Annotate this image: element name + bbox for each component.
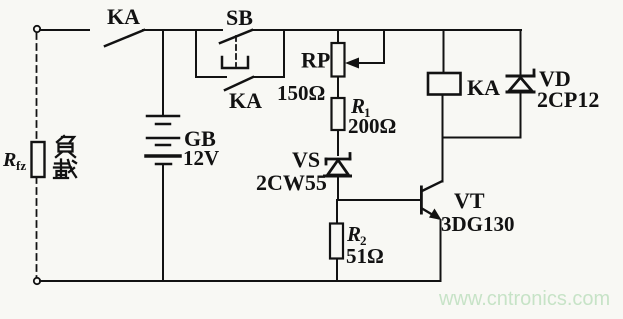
wire top rail middle segment: [143, 29, 222, 31]
wire top rail right of SB: [252, 29, 338, 31]
wire SB box left vertical: [195, 30, 197, 77]
svg-text:SB: SB: [226, 5, 253, 30]
wire battery branch bottom: [162, 165, 164, 281]
wire battery branch top: [162, 30, 164, 115]
wire top rail to VD corner: [384, 29, 521, 31]
transistor VT emitter lead: [422, 209, 438, 219]
potentiometer RP wiper arrowhead: [345, 58, 359, 69]
wire RP top: [337, 30, 339, 43]
svg-text:R: R: [2, 149, 16, 171]
resistor R1 body: [332, 98, 345, 130]
battery GB plates: [146, 116, 180, 164]
wire R2 to bottom rail: [336, 259, 338, 282]
wire node to R2: [336, 200, 338, 224]
wire SB box right vertical: [283, 30, 285, 77]
node B (bottom-left terminal): [34, 278, 40, 284]
wire KA2 branch left: [196, 76, 226, 78]
label 负 (load char 1): [56, 136, 75, 157]
wire VD to collector joint: [443, 137, 521, 139]
wire base (node to transistor): [337, 199, 420, 201]
wire KA2 branch right: [253, 76, 284, 78]
svg-text:150Ω: 150Ω: [277, 81, 325, 105]
wire bottom rail: [40, 280, 441, 282]
relay contact KA2 blade: [225, 77, 253, 90]
diode VD: [507, 70, 534, 92]
wire emitter vertical: [440, 220, 442, 281]
relay coil KA body: [428, 73, 461, 95]
svg-text:R: R: [346, 222, 361, 246]
pushbutton SB actuator bracket: [222, 57, 248, 68]
svg-text:VS: VS: [292, 147, 320, 172]
svg-text:2CP12: 2CP12: [537, 87, 599, 112]
resistor Rfz body: [32, 142, 45, 177]
pushbutton SB dashed link: [235, 36, 237, 66]
wire VD top: [520, 30, 522, 75]
wire R1 to VS: [337, 130, 339, 155]
wire coil KA top: [443, 30, 445, 73]
wire top rail RP to wiper: [338, 29, 384, 31]
switch KA1 blade: [105, 30, 144, 46]
wire top rail left segment: [40, 29, 89, 31]
wire load dashed top: [36, 33, 38, 142]
transistor VT collector lead: [422, 182, 442, 192]
svg-text:12V: 12V: [183, 146, 219, 170]
wire collector vertical: [442, 95, 444, 182]
potentiometer RP body: [332, 43, 345, 77]
potentiometer RP wiper wire: [350, 30, 384, 63]
svg-text:VT: VT: [454, 188, 485, 213]
svg-text:RP: RP: [301, 48, 330, 73]
svg-text:200Ω: 200Ω: [348, 114, 396, 138]
svg-text:www.cntronics.com: www.cntronics.com: [438, 288, 610, 310]
pushbutton SB blade: [220, 30, 252, 43]
svg-text:2CW55: 2CW55: [256, 170, 327, 195]
svg-text:KA: KA: [107, 4, 140, 29]
svg-text:KA: KA: [467, 75, 500, 100]
zener diode VS: [325, 154, 351, 177]
wire RP to R1: [337, 77, 339, 99]
node A (top-left terminal): [34, 26, 40, 32]
wire VS to node B2: [337, 176, 339, 200]
svg-text:fz: fz: [16, 158, 26, 173]
wire VD bottom: [520, 92, 522, 138]
svg-text:KA: KA: [229, 88, 262, 113]
transistor VT base bar: [420, 186, 423, 215]
svg-text:3DG130: 3DG130: [441, 212, 515, 236]
resistor R2 body: [330, 224, 343, 259]
transistor VT emitter arrowhead: [429, 209, 442, 221]
label 载 (load char 2): [54, 160, 76, 179]
svg-text:51Ω: 51Ω: [346, 244, 384, 268]
wire load dashed bottom: [36, 177, 38, 277]
